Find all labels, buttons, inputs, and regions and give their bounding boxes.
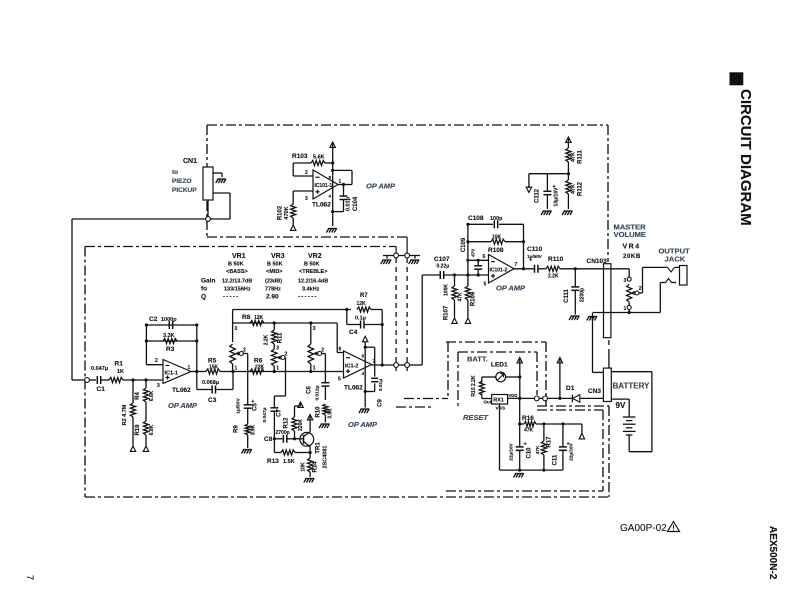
svg-text:22μ/16V: 22μ/16V <box>569 442 574 460</box>
label OP AMP IC1-1 <box>168 401 198 410</box>
wire C2 top branch <box>145 323 199 326</box>
svg-text:PIEZO: PIEZO <box>172 178 192 185</box>
wire supply rail IC101-1 <box>331 147 334 226</box>
connector CN3 <box>603 368 611 401</box>
wire VR4 pin1 ground rail <box>593 310 660 315</box>
svg-text:R7: R7 <box>360 293 368 299</box>
capacitor C1 <box>91 366 109 393</box>
svg-text:12K: 12K <box>357 301 367 307</box>
wire CN3 to battery <box>611 399 629 416</box>
svg-text:3: 3 <box>305 196 308 202</box>
svg-text:47K: 47K <box>535 445 541 454</box>
ground link right <box>409 260 420 264</box>
connector CN1 <box>203 167 213 200</box>
board boundary reset box <box>446 340 609 491</box>
capacitor C3 <box>197 372 233 405</box>
capacitor C104 <box>333 183 359 212</box>
svg-text:R9: R9 <box>234 425 240 433</box>
svg-text:3.3K: 3.3K <box>163 333 175 339</box>
svg-text:C3: C3 <box>208 397 217 404</box>
svg-text:12.2/13.7dB: 12.2/13.7dB <box>222 279 252 285</box>
node R4 <box>144 378 147 381</box>
svg-text:1: 1 <box>624 306 627 312</box>
resistor R16 <box>520 415 582 434</box>
svg-text:100p: 100p <box>490 216 503 222</box>
capacitor C112 <box>535 184 560 209</box>
svg-text:R14: R14 <box>313 461 319 473</box>
svg-text:(23dB): (23dB) <box>265 279 282 285</box>
wire VR2 wiper to C6 <box>322 354 326 383</box>
svg-text:C9: C9 <box>377 399 383 407</box>
svg-text:OP AMP: OP AMP <box>496 284 526 293</box>
svg-text:2200p: 2200p <box>580 288 586 302</box>
wire VDD rail down <box>518 398 521 446</box>
capacitor C109 <box>461 237 482 275</box>
svg-text:10K: 10K <box>492 235 502 241</box>
power arrow R102 <box>291 225 296 230</box>
svg-text:12K: 12K <box>254 315 264 321</box>
label to PIEZO PICKUP <box>172 169 197 194</box>
svg-text:R2 4.7M: R2 4.7M <box>122 404 128 425</box>
wire pin3 R102 <box>293 191 313 204</box>
pot VR4 wiper <box>632 286 642 295</box>
wire CN1 bottom <box>207 200 209 219</box>
resistor R17 <box>535 424 553 470</box>
output jack sleeve contact <box>660 279 676 313</box>
label VR2 column <box>299 253 327 275</box>
pot VR1 wiper <box>236 348 246 356</box>
svg-text:AEX500N-2: AEX500N-2 <box>767 526 778 580</box>
wire IC1-2 output <box>372 275 441 365</box>
diode D1 <box>548 385 603 402</box>
svg-text:1: 1 <box>276 366 279 372</box>
wire IC101-1 feedback <box>333 170 352 184</box>
IC RX1 <box>484 393 518 412</box>
battery B1 <box>623 417 636 452</box>
svg-text:VOLUME: VOLUME <box>614 230 647 239</box>
wire LED rail <box>506 362 522 400</box>
wire jack rail to CN3 <box>593 313 604 373</box>
resistor R9 <box>234 424 257 448</box>
ground link left <box>381 260 392 264</box>
resistor R111 <box>566 148 584 174</box>
svg-text:2SC4081: 2SC4081 <box>323 446 329 469</box>
wire R8 line <box>233 310 338 343</box>
arrow IC1-2 supply <box>363 336 368 407</box>
svg-text:JACK: JACK <box>665 254 686 263</box>
svg-text:778Hz: 778Hz <box>265 287 281 293</box>
svg-text:TL062: TL062 <box>172 387 191 394</box>
svg-text:IC1-1: IC1-1 <box>165 371 178 377</box>
svg-text:3.9K: 3.9K <box>251 424 257 435</box>
svg-text:12.2/16.4dB: 12.2/16.4dB <box>298 279 328 285</box>
svg-text:220K: 220K <box>298 419 304 431</box>
resistor R14 <box>301 453 319 478</box>
wire LED left <box>482 377 496 383</box>
svg-text:<TREBLE>: <TREBLE> <box>299 269 327 275</box>
resistor R10 <box>316 404 334 423</box>
wire VR4 wiper to jack <box>639 267 643 293</box>
svg-text:OP AMP: OP AMP <box>366 182 396 191</box>
arrow R2 <box>130 446 135 451</box>
svg-text:3: 3 <box>313 326 316 332</box>
label LED1 <box>491 362 508 369</box>
arrow R12 <box>298 402 303 407</box>
wire CN103 to CN3 <box>608 352 610 368</box>
capacitor C111 <box>564 269 586 315</box>
title CIRCUIT DIAGRAM <box>737 89 754 226</box>
svg-text:OP AMP: OP AMP <box>348 420 378 429</box>
svg-text:5.6K: 5.6K <box>313 155 325 161</box>
svg-text:+: + <box>524 442 527 448</box>
svg-text:6: 6 <box>339 347 342 353</box>
svg-text:6.8K: 6.8K <box>149 424 155 435</box>
op-amp IC1-2 <box>338 351 376 383</box>
svg-text:IC101-1: IC101-1 <box>315 183 333 189</box>
label VR4 20KB <box>623 244 641 261</box>
svg-text:1: 1 <box>188 365 191 371</box>
svg-text:TR1: TR1 <box>316 442 322 454</box>
wire VR3 wiper to C7 <box>274 358 285 408</box>
label RESET <box>463 413 489 422</box>
svg-text:R108: R108 <box>488 247 504 254</box>
svg-text:C112: C112 <box>535 188 541 203</box>
transistor TR1 <box>295 419 329 468</box>
resistor R107 <box>444 275 458 320</box>
power arrow IC101-1 rail <box>330 142 335 147</box>
ground CN1 <box>216 179 227 183</box>
output jack plug <box>680 266 688 286</box>
svg-text:C1: C1 <box>97 386 106 393</box>
label MASTER VOLUME <box>614 223 647 239</box>
svg-text:3: 3 <box>624 278 627 284</box>
ground reset rail <box>513 474 524 478</box>
ground R14 <box>304 479 315 483</box>
svg-text:R4: R4 <box>135 392 141 400</box>
svg-text:6.6K: 6.6K <box>149 390 155 401</box>
title square <box>730 72 744 85</box>
svg-text:CN1: CN1 <box>183 158 197 165</box>
svg-text:IC1-2: IC1-2 <box>345 364 358 370</box>
svg-text:C104: C104 <box>353 196 359 211</box>
svg-text:3: 3 <box>276 346 279 352</box>
wire R3 branch <box>145 339 199 342</box>
svg-text:20KB: 20KB <box>623 253 641 260</box>
svg-text:7: 7 <box>25 575 35 580</box>
svg-text:0.01μ: 0.01μ <box>378 379 384 391</box>
svg-text:VR1: VR1 <box>232 253 246 260</box>
capacitor C4 <box>347 310 384 367</box>
resistor R2 <box>122 380 136 446</box>
wire RX1 VDD <box>508 397 510 399</box>
svg-text:B 50K: B 50K <box>267 262 283 268</box>
ground R9 <box>241 450 252 454</box>
svg-text:fo: fo <box>201 286 207 293</box>
arrow R109 <box>465 318 470 323</box>
node D1 circles <box>510 396 548 401</box>
svg-text:VSS: VSS <box>496 406 506 412</box>
capacitor C107 <box>434 256 489 279</box>
svg-text:C111: C111 <box>564 288 570 302</box>
wire CN3 right top <box>611 372 652 452</box>
page number 7 <box>25 575 35 580</box>
svg-text:R19: R19 <box>135 424 141 436</box>
op-amp IC101-2 <box>484 255 518 288</box>
warning triangle <box>668 522 680 532</box>
label CN1 <box>183 158 197 165</box>
svg-text:VDD: VDD <box>509 393 518 398</box>
pin 2 label IC101-1 <box>305 170 308 176</box>
arrow R19 <box>143 446 148 451</box>
label fo row <box>201 286 320 293</box>
ground jack rail <box>587 317 598 321</box>
label OP AMP top <box>366 182 396 191</box>
arrow TR1 collector <box>307 415 312 420</box>
wire pin6 line IC101-2 <box>468 254 489 262</box>
resistor R13 <box>267 439 312 465</box>
svg-text:3.4kHz: 3.4kHz <box>302 287 320 293</box>
svg-text:R112: R112 <box>578 181 584 196</box>
svg-text:2.2K: 2.2K <box>264 334 270 345</box>
resistor R8 <box>242 314 264 326</box>
svg-text:22K: 22K <box>255 364 265 370</box>
svg-text:R15 2.2K: R15 2.2K <box>471 375 477 397</box>
wire R103 to pin2 <box>293 163 313 176</box>
arrow bias stub <box>526 187 531 192</box>
wire C112 branch <box>547 174 568 191</box>
svg-text:C7: C7 <box>277 409 283 417</box>
svg-text:0.22μ: 0.22μ <box>437 264 450 270</box>
arrow D1 supply <box>557 358 562 399</box>
svg-text:C109: C109 <box>461 237 467 252</box>
node ground link circles <box>394 253 410 258</box>
label OP AMP IC101-2 <box>496 284 526 293</box>
svg-text:22μ/16V: 22μ/16V <box>509 442 514 460</box>
label OP AMP IC1-2 <box>348 420 378 429</box>
resistor R108 <box>468 235 525 255</box>
svg-text:CIRCUIT DIAGRAM: CIRCUIT DIAGRAM <box>737 89 754 226</box>
svg-text:Gain: Gain <box>201 278 215 285</box>
arrow LED rail <box>517 358 522 363</box>
op-amp IC1-1 <box>157 360 191 390</box>
wire IC101-2 feedback left <box>466 223 469 275</box>
wire main line 2 <box>231 370 343 373</box>
resistor R109 <box>458 275 477 318</box>
svg-text:R103: R103 <box>292 153 308 160</box>
svg-text:------: ------ <box>298 295 318 301</box>
svg-text:PICKUP: PICKUP <box>172 187 197 194</box>
svg-text:TL062: TL062 <box>344 385 363 392</box>
svg-text:2700p: 2700p <box>276 430 290 436</box>
capacitor C8 <box>264 430 296 443</box>
label AEX500N-2 <box>767 526 778 580</box>
svg-text:1.5K: 1.5K <box>283 459 295 465</box>
svg-text:0.012μ: 0.012μ <box>315 385 321 400</box>
svg-text:C5: C5 <box>253 403 259 411</box>
capacitor C7 <box>262 407 283 438</box>
svg-text:R13: R13 <box>267 458 279 465</box>
svg-text:7: 7 <box>515 262 518 268</box>
svg-text:2: 2 <box>321 348 324 354</box>
svg-text:R12: R12 <box>284 417 290 429</box>
svg-text:470: 470 <box>471 249 477 257</box>
wire RX1 VSS down <box>500 404 563 472</box>
svg-text:B 50K: B 50K <box>304 262 320 268</box>
ground R10 <box>319 424 330 428</box>
capacitor C5 <box>236 397 259 424</box>
connector CN103 <box>604 264 611 338</box>
node CN1 junction <box>206 217 211 222</box>
svg-text:1K: 1K <box>117 369 124 375</box>
label BATT <box>467 355 488 364</box>
svg-text:R1: R1 <box>115 361 124 368</box>
label VR3 column <box>266 253 285 275</box>
svg-text:-----: ----- <box>223 295 240 301</box>
pin 2 label IC1-1 <box>155 358 158 364</box>
svg-text:BATT.: BATT. <box>467 355 488 364</box>
ground R112 <box>562 211 573 215</box>
op-amp IC101-1 <box>313 170 342 199</box>
svg-text:C6: C6 <box>307 386 313 394</box>
wire IC101-2 output <box>514 224 534 270</box>
resistor R11 <box>264 323 284 349</box>
wire VR1 wiper to C5 <box>243 354 247 405</box>
node board input <box>85 378 90 383</box>
label 9V <box>616 401 626 410</box>
svg-text:C11: C11 <box>553 454 559 465</box>
svg-text:C4: C4 <box>349 329 358 336</box>
svg-text:5: 5 <box>484 282 487 288</box>
ground IC101-1 rail <box>326 229 337 233</box>
svg-text:2: 2 <box>639 286 642 292</box>
svg-text:C8: C8 <box>264 436 273 443</box>
wire pin6 branch <box>337 323 343 353</box>
wire ground link <box>383 256 420 259</box>
svg-text:2: 2 <box>305 170 308 176</box>
capacitor C10 <box>509 442 533 471</box>
node C7 C8 <box>273 437 276 440</box>
svg-text:B 50K: B 50K <box>228 262 244 268</box>
svg-text:IC101-2: IC101-2 <box>490 268 508 274</box>
svg-text:1: 1 <box>313 366 316 372</box>
label gain row <box>201 278 328 285</box>
svg-text:3.9K: 3.9K <box>328 408 334 419</box>
svg-text:RX1: RX1 <box>493 398 504 404</box>
svg-text:10μ/16V: 10μ/16V <box>554 187 560 207</box>
svg-text:0.068μ: 0.068μ <box>202 380 219 386</box>
output jack tip contact <box>643 267 680 272</box>
svg-text:10K: 10K <box>301 462 307 472</box>
svg-text:R111: R111 <box>578 149 584 163</box>
svg-text:2.2K: 2.2K <box>548 274 559 280</box>
svg-text:RESET: RESET <box>463 413 489 422</box>
wire CN103 to VR4 <box>628 269 630 277</box>
svg-text:0.047μ: 0.047μ <box>91 366 108 372</box>
arrow R16 stub <box>579 424 584 439</box>
wire CN1 pin2 loop <box>213 193 230 219</box>
resistor R103 <box>292 153 333 166</box>
svg-text:47K: 47K <box>571 184 577 194</box>
svg-text:R3: R3 <box>166 346 175 353</box>
ground C112 <box>541 211 552 215</box>
svg-text:100K: 100K <box>444 284 450 296</box>
node output circles <box>394 363 410 368</box>
svg-text:R16: R16 <box>522 415 534 422</box>
label TL062 IC1-2 <box>344 385 363 392</box>
resistor R5 <box>206 358 233 375</box>
label Q row <box>201 294 318 301</box>
svg-text:47K: 47K <box>571 152 577 162</box>
pot VR2 <box>308 323 316 372</box>
svg-text:CN103: CN103 <box>587 258 608 265</box>
wire IC1-1 output <box>191 325 206 390</box>
capacitor C9 <box>365 347 384 407</box>
svg-text:133/156Hz: 133/156Hz <box>224 287 251 293</box>
svg-text:C10: C10 <box>527 447 533 459</box>
svg-text:R109: R109 <box>471 291 477 306</box>
resistor R12 <box>284 406 304 439</box>
resistor R3 <box>163 333 177 353</box>
svg-text:1μ/50V: 1μ/50V <box>527 254 543 259</box>
board boundary main box <box>85 237 609 497</box>
pot VR1 <box>230 326 238 372</box>
capacitor C110 <box>527 246 546 273</box>
svg-text:C2: C2 <box>149 316 158 323</box>
svg-text:2.90: 2.90 <box>266 294 279 301</box>
svg-text:R10: R10 <box>316 406 322 418</box>
label CN103 <box>587 258 608 265</box>
resistor R6 <box>250 358 265 375</box>
svg-text:VR3: VR3 <box>271 253 285 260</box>
svg-text:R11: R11 <box>278 332 284 343</box>
arrow R107 <box>452 318 457 323</box>
svg-text:to: to <box>172 169 178 176</box>
pot VR3 wiper <box>278 352 288 360</box>
resistor R4 <box>135 380 155 421</box>
svg-text:OP AMP: OP AMP <box>168 401 198 410</box>
svg-text:1000p: 1000p <box>161 317 177 323</box>
label TL062 IC1-1 <box>172 387 191 394</box>
svg-text:VR4: VR4 <box>623 244 641 251</box>
svg-text:BATTERY: BATTERY <box>613 382 651 391</box>
node R2 <box>131 378 134 381</box>
capacitor C6 <box>307 383 330 401</box>
svg-text:2: 2 <box>243 348 246 354</box>
svg-text:9V: 9V <box>616 401 626 410</box>
svg-text:R107: R107 <box>444 305 450 320</box>
resistor R102 <box>278 204 296 225</box>
power arrow R111 <box>566 137 571 148</box>
pin 3 label IC101-1 <box>305 196 308 202</box>
board boundary top box <box>207 125 608 262</box>
svg-text:0.01μ: 0.01μ <box>346 197 352 211</box>
svg-text:R8: R8 <box>242 314 251 321</box>
LED LED1 <box>496 372 506 382</box>
capacitor C2 <box>149 316 177 329</box>
node bias <box>567 172 570 175</box>
svg-text:R102: R102 <box>278 205 284 220</box>
svg-text:<MID>: <MID> <box>266 269 283 275</box>
resistor R15 <box>471 375 492 398</box>
wire R7 feedback line <box>233 293 383 312</box>
wire feedback left IC1-1 <box>146 325 163 365</box>
svg-text:TL062: TL062 <box>312 202 331 209</box>
svg-text:C110: C110 <box>527 246 543 253</box>
wire input to C1 <box>89 379 96 381</box>
label BATTERY <box>613 382 651 391</box>
svg-text:3: 3 <box>157 383 160 389</box>
svg-text:C108: C108 <box>468 215 484 222</box>
